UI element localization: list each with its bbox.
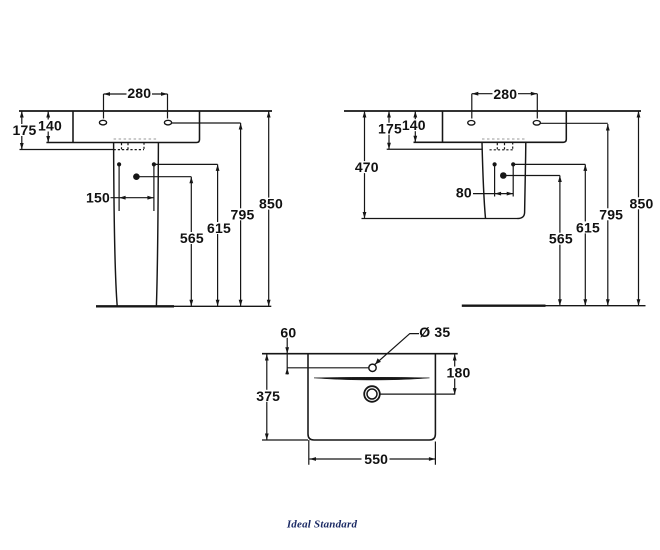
dim line 175 <box>388 111 390 149</box>
label 565 right <box>548 233 573 245</box>
dim 80 line <box>473 193 514 195</box>
280 arrows left view <box>104 92 111 96</box>
565 arrows left <box>189 177 193 184</box>
svg-text:565: 565 <box>180 230 204 246</box>
dashed drain outline <box>114 143 144 150</box>
line hole to 795 <box>540 122 607 124</box>
svg-text:175: 175 <box>13 122 37 138</box>
dim line 175 <box>21 111 23 150</box>
svg-text:615: 615 <box>207 220 231 236</box>
dim 615 vertical <box>217 164 219 306</box>
semi-pedestal <box>482 142 526 218</box>
drain dot left <box>133 173 140 180</box>
label 550 <box>362 453 390 466</box>
floor line thin <box>546 305 646 307</box>
bottom extension line <box>262 439 308 441</box>
550 arrows <box>310 457 317 461</box>
leader line to diameter label <box>375 358 381 364</box>
label 615 right <box>576 221 601 233</box>
line right dot to 615 <box>513 163 585 165</box>
svg-text:60: 60 <box>280 325 296 341</box>
faucet hole right <box>533 121 540 126</box>
label 80 <box>455 186 473 198</box>
floor line thick <box>96 305 174 307</box>
dim 850 vertical <box>268 111 270 306</box>
150 arrows <box>119 196 126 200</box>
svg-text:140: 140 <box>38 117 62 133</box>
waterline lens <box>314 377 430 380</box>
svg-text:850: 850 <box>259 196 283 212</box>
label 615 left <box>207 222 232 234</box>
fixing dot left B <box>152 162 156 166</box>
label 140 right <box>401 119 426 131</box>
faucet hole left <box>468 121 475 126</box>
850 arrows left <box>267 111 271 118</box>
fixing dot right B <box>511 162 515 166</box>
dashed drain outline <box>490 142 513 150</box>
fixing dot right A <box>493 162 497 166</box>
bottom line of 175 <box>387 148 482 150</box>
dim 150 line <box>111 197 154 199</box>
dim 565 vertical <box>559 176 561 306</box>
label 175 left <box>12 124 37 136</box>
dim line 140 <box>47 111 49 143</box>
svg-text:470: 470 <box>355 159 379 175</box>
dim 795 vertical <box>240 123 242 306</box>
bottom line of 175 <box>20 149 114 151</box>
label 565 left <box>180 232 205 244</box>
80 arrows <box>495 192 502 196</box>
svg-text:795: 795 <box>599 206 623 222</box>
label 180 <box>446 367 471 379</box>
pedestal <box>114 143 159 307</box>
dim 550 line <box>310 458 436 460</box>
375 arrows <box>265 354 269 361</box>
arrowheads <box>20 92 641 461</box>
label 850 right <box>629 197 654 209</box>
basin outline <box>414 111 567 142</box>
175 arrows <box>20 111 24 118</box>
label 140 left <box>38 120 63 132</box>
svg-text:Ø 35: Ø 35 <box>419 324 450 340</box>
svg-text:550: 550 <box>364 451 388 467</box>
dim 795 vertical <box>607 124 609 306</box>
drain centre line <box>380 393 455 395</box>
label 280 right <box>493 88 519 101</box>
basin rounded outline <box>308 354 435 440</box>
dim 60 vertical <box>286 338 288 375</box>
svg-text:140: 140 <box>402 117 426 133</box>
svg-text:175: 175 <box>378 121 402 137</box>
hidden dashed line semi-pedestal top <box>482 138 526 140</box>
dim 850 vertical <box>638 111 640 306</box>
faucet hole right <box>164 120 171 125</box>
dim 180 vertical <box>454 354 456 395</box>
label 375 <box>254 390 279 402</box>
svg-text:80: 80 <box>456 184 472 200</box>
floor line thin <box>174 305 271 307</box>
850 arrows right <box>637 111 641 118</box>
hidden dashed line pedestal top <box>114 138 159 140</box>
175 arrows right <box>387 111 391 118</box>
hole centre line <box>287 367 369 369</box>
dot extension verticals <box>119 165 154 211</box>
fixing dot left A <box>117 162 121 166</box>
dim 280 line and drops <box>104 94 168 119</box>
label 850 left <box>259 198 284 210</box>
top reference line <box>19 110 272 112</box>
line hole to 795 <box>172 122 241 124</box>
dim 615 vertical <box>584 164 586 305</box>
line right dot to 615 <box>154 163 218 165</box>
svg-text:280: 280 <box>493 86 517 102</box>
dim line 140 <box>414 111 416 142</box>
dim 375 vertical <box>266 354 268 440</box>
faucet hole top view <box>369 364 376 371</box>
svg-text:795: 795 <box>231 206 255 222</box>
615 arrows left <box>216 164 220 171</box>
dim 470 vertical <box>364 111 366 219</box>
dim 565 vertical <box>190 177 192 307</box>
floor line thick <box>462 305 546 307</box>
795 arrows left <box>239 123 243 130</box>
svg-text:565: 565 <box>549 231 573 247</box>
795 arrows right <box>606 124 610 131</box>
svg-text:615: 615 <box>576 219 600 235</box>
label 175 right <box>378 123 403 135</box>
svg-text:280: 280 <box>127 85 151 101</box>
svg-text:375: 375 <box>256 388 280 404</box>
label 795 right <box>599 208 624 220</box>
text labels with white backing <box>12 85 654 467</box>
615 arrows right <box>583 164 587 171</box>
label 280 left <box>127 87 153 100</box>
svg-text:150: 150 <box>86 189 110 205</box>
180 arrows <box>453 354 457 361</box>
dim 550 extensions <box>309 440 436 465</box>
60 arrows <box>285 347 289 354</box>
svg-text:850: 850 <box>630 195 654 211</box>
line big dot to 565 <box>136 176 191 178</box>
svg-text:180: 180 <box>447 365 471 381</box>
140 arrows right <box>413 111 417 118</box>
label 795 left <box>230 208 255 220</box>
565 arrows right <box>558 176 562 183</box>
basin outline <box>46 111 199 143</box>
label 470 <box>354 161 379 173</box>
line big dot to 565 <box>503 175 560 177</box>
svg-text:Ideal Standard: Ideal Standard <box>286 519 358 531</box>
label 150 <box>86 192 111 204</box>
140 arrows <box>46 111 50 118</box>
semi-pedestal bottom and extension line to 470 <box>362 218 518 220</box>
faucet hole left <box>99 120 106 125</box>
drain inner circle <box>367 389 377 399</box>
drain outer circle <box>364 386 380 402</box>
280 arrows right view <box>472 92 479 96</box>
470 arrows <box>363 111 367 118</box>
drain dot right <box>500 172 507 179</box>
dot extension verticals <box>495 165 514 197</box>
top reference line <box>344 110 641 112</box>
dim 280 line and drops <box>472 94 538 119</box>
top edge with extensions <box>262 353 458 355</box>
